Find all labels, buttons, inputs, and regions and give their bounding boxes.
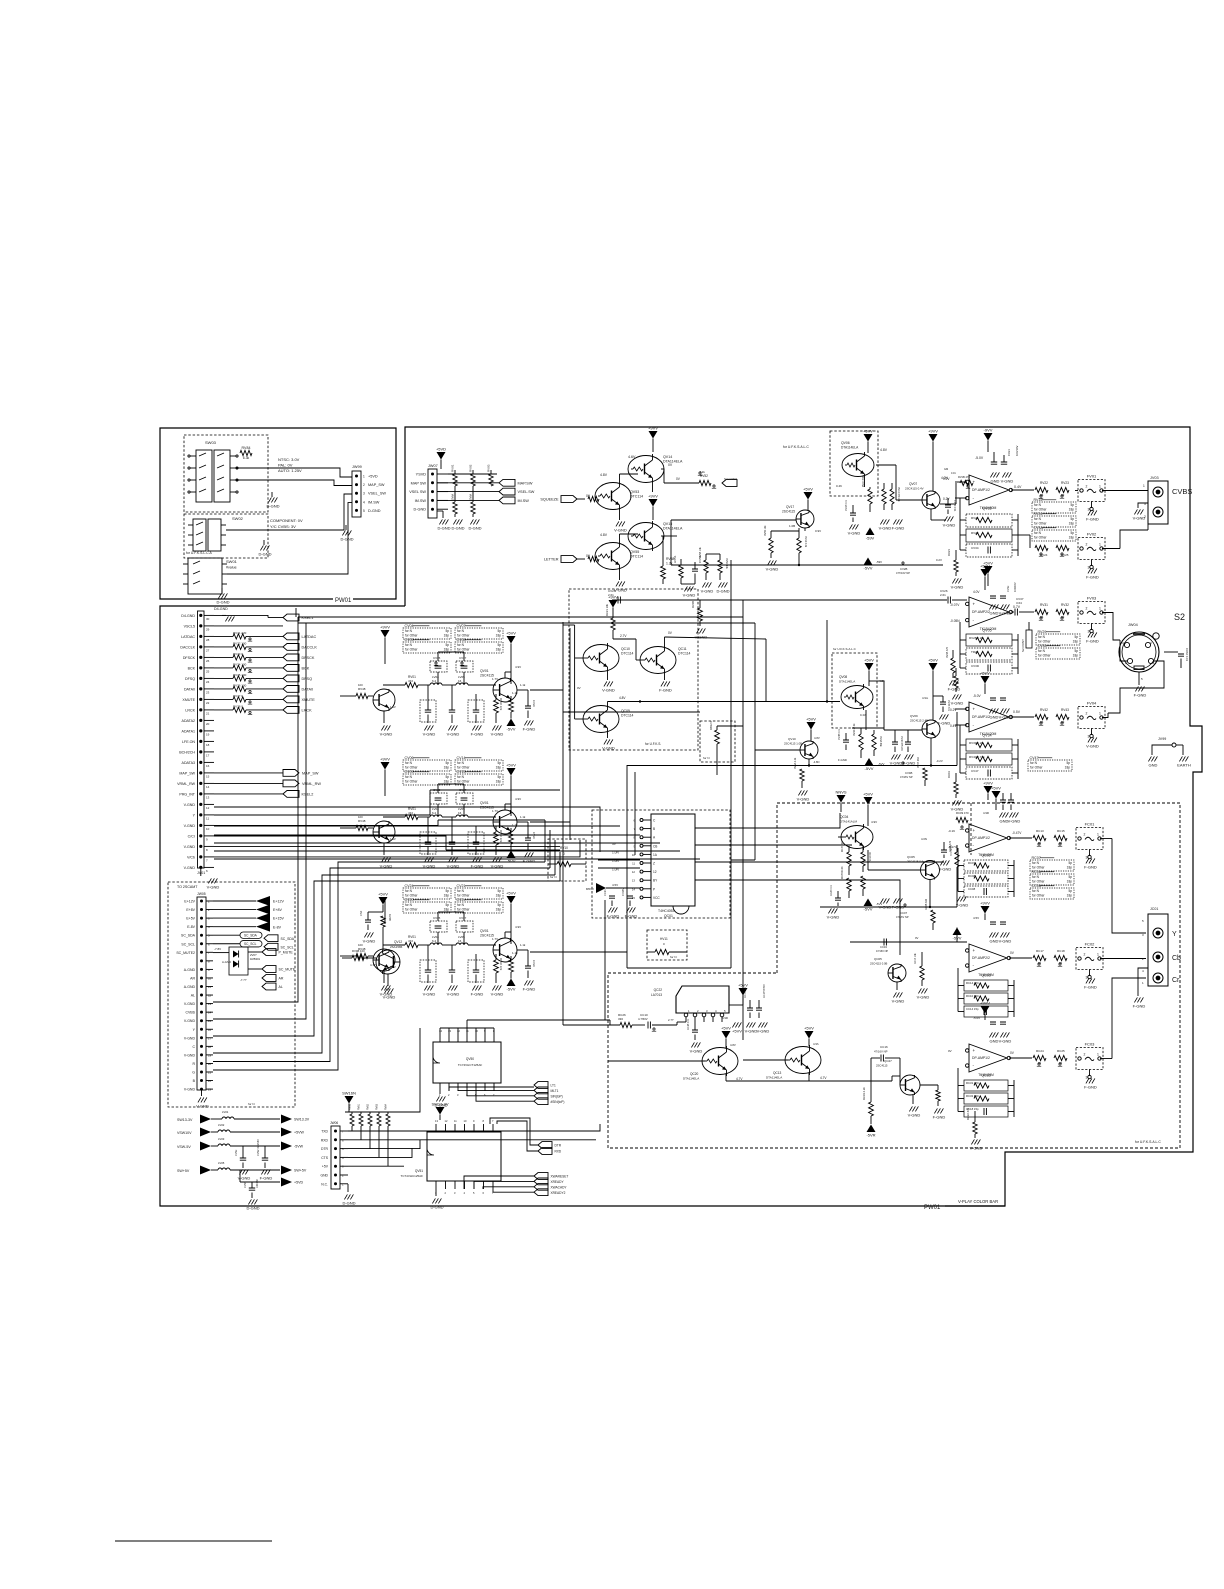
svg-text:RC19 2.2k: RC19 2.2k (862, 1087, 866, 1100)
wire qc04 to qc05 (867, 850, 869, 870)
vertical from QV17 region (826, 620, 828, 702)
svg-text:F-GND: F-GND (471, 732, 484, 737)
svg-text:RV64: RV64 (385, 1103, 388, 1110)
svg-text:CV3D: CV3D (971, 664, 980, 668)
svg-text:V-GND: V-GND (363, 939, 376, 944)
resistor RVx1 472 CV04 (405, 682, 418, 687)
svg-text:12: 12 (208, 994, 212, 998)
svg-text:D-GND: D-GND (414, 508, 427, 512)
svg-text:G: G (192, 1071, 195, 1075)
svg-text:D-GND: D-GND (451, 526, 464, 531)
svg-text:1.1k: 1.1k (512, 691, 518, 695)
ground V-GND jw05 (201, 1090, 203, 1096)
flags P_MUTE SC_MUTE AR AL (262, 949, 276, 956)
svg-text:4.8V: 4.8V (880, 448, 888, 452)
svg-text:CV2B: CV2B (900, 567, 907, 571)
grounds qv06 (880, 519, 889, 524)
svg-text:4.9R: 4.9R (722, 1016, 728, 1020)
svg-text:5p: 5p (445, 889, 449, 893)
svg-text:CV35: CV35 (1038, 644, 1047, 648)
svg-text:for N: for N (1032, 861, 1040, 865)
svg-text:V-GND: V-GND (380, 732, 393, 737)
svg-text:E-8V: E-8V (273, 925, 282, 929)
svg-text:FV04: FV04 (1087, 701, 1097, 706)
dashed box HV11 (647, 930, 687, 960)
svg-text:V-GND: V-GND (447, 992, 460, 997)
svg-text:VSEL_SW: VSEL_SW (368, 492, 386, 496)
ferrite bead FV01 (1078, 480, 1105, 502)
svg-text:F-GND: F-GND (1086, 517, 1099, 522)
transistor QV06 DTA114ELA (842, 454, 874, 477)
svg-text:5p: 5p (1074, 649, 1078, 653)
transistor QV0x CV24 (493, 938, 517, 962)
svg-text:SC_SCL: SC_SCL (181, 942, 195, 946)
dashed box QC10 cluster (569, 589, 698, 750)
power +5VV qv10 (807, 722, 816, 730)
svg-text:6.2: 6.2 (432, 811, 437, 815)
svg-text:18p: 18p (496, 766, 502, 770)
svg-text:TXD: TXD (321, 1130, 328, 1134)
svg-text:SW13-3V: SW13-3V (431, 1102, 448, 1107)
svg-text:S2.CONT: S2.CONT (1021, 639, 1025, 652)
svg-text:#SIN(toP): #SIN(toP) (551, 1100, 565, 1104)
svg-text:4.8V: 4.8V (600, 533, 608, 537)
wire into opamp2 (612, 599, 947, 601)
svg-text:RC32 820: RC32 820 (966, 1094, 979, 1098)
svg-text:MAP_SW: MAP_SW (302, 772, 319, 776)
svg-text:16: 16 (458, 679, 462, 683)
svg-text:V-GND: V-GND (1133, 516, 1146, 521)
svg-text:1.1k: 1.1k (520, 943, 526, 947)
svg-text:QV01: QV01 (480, 801, 489, 805)
svg-text:for N: for N (1034, 503, 1042, 507)
svg-text:4.9V: 4.9V (515, 797, 521, 801)
svg-text:RV21: RV21 (947, 549, 951, 556)
svg-text:CVx5: CVx5 (433, 916, 441, 920)
power arrows E+12V etc (213, 900, 256, 902)
svg-text:for Other: for Other (457, 766, 471, 770)
svg-text:18p: 18p (496, 908, 502, 912)
feedback RV39 RV40 (966, 739, 1012, 751)
svg-text:LT1: LT1 (551, 1084, 556, 1088)
ground D-GND qv50 (439, 1091, 441, 1094)
resistor RC17 10k (920, 966, 924, 980)
transistor QC10 DTC114 (583, 645, 619, 672)
svg-text:RV74 100: RV74 100 (233, 663, 247, 667)
main board outline PW01 (405, 427, 1202, 1206)
svg-text:RV84: RV84 (242, 446, 251, 450)
svg-text:V-GND: V-GND (491, 992, 504, 997)
svg-text:for N: for N (457, 643, 465, 647)
svg-text:5p: 5p (445, 775, 449, 779)
svg-text:11: 11 (206, 816, 209, 820)
svg-text:DTR: DTR (321, 1147, 329, 1151)
svg-text:23: 23 (206, 690, 210, 694)
svg-text:4.9h: 4.9h (813, 1042, 819, 1046)
svg-text:QV01: QV01 (480, 669, 489, 673)
oval flags SC_SDA SC_SCL (213, 934, 240, 936)
svg-text:PAL: 0V: PAL: 0V (278, 463, 293, 468)
svg-text:for U.F.K.S.A.L.C: for U.F.K.S.A.L.C (833, 647, 857, 651)
svg-text:for Other: for Other (457, 894, 471, 898)
svg-text:3: 3 (1086, 856, 1088, 860)
resistor RV2B shunt (698, 608, 703, 621)
svg-text:47/16V NP: 47/16V NP (896, 915, 909, 919)
resistor RV52 12k (699, 480, 711, 485)
svg-text:26: 26 (206, 659, 210, 663)
svg-text:for N: for N (1032, 875, 1040, 879)
op-amp QC03 row Cb (969, 944, 1007, 972)
svg-text:V-GND: V-GND (196, 1104, 209, 1109)
svg-text:RV42: RV42 (1040, 708, 1048, 712)
rail 907 (820, 906, 957, 908)
wire fc01 to JC01 (1112, 839, 1146, 934)
svg-text:SW+5V: SW+5V (294, 1169, 307, 1173)
svg-text:BCH/2CH: BCH/2CH (179, 750, 195, 754)
svg-text:JW07: JW07 (428, 464, 438, 468)
svg-text:+5VD: +5VD (294, 1181, 303, 1185)
svg-text:GND: GND (1149, 763, 1158, 768)
svg-text:3: 3 (1088, 735, 1090, 739)
svg-text:2: 2 (1086, 607, 1088, 611)
svg-text:RV1B 470: RV1B 470 (958, 475, 970, 479)
svg-text:13: 13 (632, 879, 636, 883)
svg-text:DTA114ELA: DTA114ELA (839, 680, 855, 684)
power -5VV on rail (865, 758, 874, 766)
svg-text:+5VV: +5VV (991, 786, 1001, 791)
svg-text:CV09: CV09 (405, 770, 414, 774)
svg-text:18: 18 (208, 1045, 212, 1049)
svg-text:QV14: QV14 (663, 455, 672, 459)
svg-text:S2.CONT: S2.CONT (724, 477, 737, 481)
caps under QC22 (692, 1030, 698, 1032)
svg-text:5p: 5p (1070, 517, 1074, 521)
ferrite bead FV03 (1078, 602, 1105, 624)
svg-text:QV01: QV01 (480, 929, 489, 933)
ground F-GND fv02 (1091, 565, 1093, 567)
svg-text:20: 20 (206, 722, 210, 726)
svg-text:M5VV: M5VV (586, 887, 594, 891)
svg-text:13: 13 (206, 795, 210, 799)
svg-text:1: 1 (363, 475, 365, 479)
svg-text:CC17 0.01: CC17 0.01 (745, 986, 747, 998)
svg-text:DTA114ELA: DTA114ELA (683, 1077, 699, 1081)
svg-text:2SC4115: 2SC4115 (876, 1064, 888, 1068)
svg-text:RV48: RV48 (358, 687, 366, 691)
option table CV47 (1028, 760, 1072, 771)
svg-text:CVBS: CVBS (185, 1011, 195, 1015)
svg-text:472: 472 (408, 811, 413, 815)
svg-text:QC01: QC01 (664, 914, 673, 918)
svg-text:V-GND: V-GND (423, 732, 436, 737)
svg-text:15: 15 (206, 774, 210, 778)
svg-text:23: 23 (208, 1088, 212, 1092)
svg-text:1.7V: 1.7V (492, 677, 498, 681)
flag SQUEEZE input (561, 496, 577, 503)
second path RV24 RV25b to FV02 (1018, 534, 1030, 536)
svg-text:0.01: 0.01 (951, 472, 956, 475)
svg-text:RC24: RC24 (1036, 1049, 1044, 1053)
svg-text:RV5A 2.2k: RV5A 2.2k (794, 757, 797, 769)
svg-text:V-GND: V-GND (757, 1029, 770, 1034)
svg-text:XMUTE: XMUTE (302, 698, 316, 702)
svg-text:CV08: CV08 (457, 638, 466, 642)
svg-text:CV9x: CV9x (234, 1149, 238, 1156)
svg-text:VSEL.SW: VSEL.SW (518, 490, 535, 494)
svg-text:21: 21 (206, 711, 210, 715)
svg-text:TO 2SCAMT: TO 2SCAMT (177, 885, 198, 889)
svg-text:RC06: RC06 (1032, 870, 1041, 874)
svg-text:RV48: RV48 (358, 819, 366, 823)
svg-text:6.2: 6.2 (432, 939, 437, 943)
svg-text:F-GND: F-GND (933, 1115, 946, 1120)
input resistor RC09 (956, 817, 968, 822)
svg-text:RC31 470: RC31 470 (966, 1081, 979, 1085)
svg-text:GND: GND (990, 715, 999, 720)
svg-text:F-GND: F-GND (1134, 693, 1147, 698)
caps CC17 CC18 (747, 1008, 753, 1010)
svg-text:E-8V: E-8V (187, 925, 195, 929)
svg-text:0V: 0V (948, 1049, 952, 1053)
svg-text:for Other: for Other (405, 908, 419, 912)
svg-text:16: 16 (206, 764, 210, 768)
svg-text:for Other: for Other (457, 908, 471, 912)
flag LETTER input (561, 556, 577, 563)
svg-text:for N: for N (457, 889, 465, 893)
svg-text:QV09: QV09 (910, 714, 918, 718)
svg-text:2: 2 (363, 483, 365, 487)
power +5VV qc20 (722, 1031, 731, 1039)
svg-text:0V: 0V (577, 686, 581, 690)
svg-text:V-GND: V-GND (614, 588, 627, 593)
resistor RV3T 330 (923, 768, 927, 780)
power -5VV qc04 net (864, 899, 873, 907)
svg-text:100/16V: 100/16V (1013, 582, 1017, 592)
svg-text:V-GND: V-GND (383, 995, 396, 1000)
svg-text:V/Cb: V/Cb (187, 855, 195, 859)
svg-text:CTS: CTS (321, 1156, 329, 1160)
svg-text:5p: 5p (497, 903, 501, 907)
transistor QV0x CV04 (493, 678, 517, 702)
wire jw06 bus (390, 1028, 420, 1112)
svg-text:+5VV: +5VV (863, 429, 873, 434)
svg-text:0.46: 0.46 (836, 484, 842, 488)
switch SW02 block (184, 514, 268, 558)
wires DIN (1120, 640, 1127, 661)
ferrite bead FC03 (1076, 1048, 1103, 1070)
transistor QC04 DTA141ALM (841, 826, 873, 849)
svg-text:-59V: -59V (876, 560, 882, 564)
svg-text:RV40 2.77k: RV40 2.77k (969, 755, 985, 759)
svg-text:CV04: CV04 (405, 624, 414, 628)
svg-text:ADATA1: ADATA1 (182, 729, 195, 733)
option tables RV29 CV35 (1036, 634, 1080, 645)
svg-text:D-GND: D-GND (437, 526, 450, 531)
power +9VV below (984, 786, 993, 794)
svg-text:RC17 10k: RC17 10k (914, 953, 917, 964)
power +9VV above QV56 (649, 499, 658, 507)
svg-text:RV5B 10k: RV5B 10k (699, 546, 702, 558)
svg-text:SC_SDA: SC_SDA (281, 937, 295, 941)
svg-text:SIN(toP): SIN(toP) (551, 1094, 563, 1098)
svg-text:16: 16 (208, 1028, 212, 1032)
svg-text:CV62 0.01: CV62 0.01 (1185, 648, 1189, 662)
svg-text:18p: 18p (496, 894, 502, 898)
svg-text:2.7?: 2.7? (668, 1018, 674, 1022)
svg-text:TK15420M: TK15420M (978, 973, 994, 977)
routing bus center (295, 608, 297, 617)
svg-text:QV06: QV06 (841, 441, 850, 445)
svg-text:CVx1: CVx1 (1007, 449, 1011, 456)
grounds CV24 (424, 985, 433, 990)
svg-text:DP-AMP1/2: DP-AMP1/2 (972, 488, 990, 492)
svg-text:MAP_SW: MAP_SW (179, 771, 195, 775)
svg-text:SW16N: SW16N (342, 1091, 356, 1096)
svg-text:KSEL2: KSEL2 (302, 793, 314, 797)
svg-text:DFSQ: DFSQ (302, 677, 313, 681)
ground F-GND fv01 (1091, 507, 1093, 509)
flag S2.CONT vertical (1026, 630, 1032, 648)
svg-text:for U.F.K.S.A.L.C: for U.F.K.S.A.L.C (783, 445, 809, 449)
svg-text:DTR: DTR (555, 1144, 562, 1148)
svg-text:SC_MUTE2: SC_MUTE2 (176, 951, 195, 955)
svg-text:RC21 10k: RC21 10k (605, 603, 609, 616)
svg-text:XREADY2: XREADY2 (551, 1191, 566, 1195)
svg-text:RB12 0: RB12 0 (709, 721, 713, 730)
resistors RV71-78 (214, 625, 283, 627)
svg-text:E+8V: E+8V (186, 908, 195, 912)
svg-text:Cr: Cr (1172, 977, 1180, 984)
svg-text:PW01: PW01 (924, 1205, 941, 1211)
svg-text:0.2V: 0.2V (943, 497, 950, 501)
svg-text:ADATA3: ADATA3 (182, 761, 195, 765)
svg-text:3: 3 (1088, 566, 1090, 570)
svg-text:-5VV: -5VV (507, 987, 516, 992)
svg-text:EARTH: EARTH (1177, 763, 1191, 768)
svg-text:5p: 5p (497, 629, 501, 633)
svg-text:2SA1586: 2SA1586 (390, 945, 403, 949)
svg-text:TK15420M: TK15420M (978, 1073, 994, 1077)
dashed box QV08 (832, 653, 877, 728)
svg-text:SV6A: SV6A (452, 493, 455, 500)
svg-text:NTSC: 3.0V: NTSC: 3.0V (278, 457, 300, 462)
svg-text:V-GND: V-GND (943, 523, 956, 528)
power SW43 flag (436, 1107, 445, 1115)
svg-text:DTA114ELA: DTA114ELA (841, 446, 859, 450)
svg-text:FV02: FV02 (1087, 532, 1097, 537)
svg-text:18p: 18p (444, 908, 450, 912)
option tables CV06 (403, 760, 451, 771)
left follower CV06 (373, 821, 395, 843)
svg-text:QC10: QC10 (621, 647, 630, 651)
jumper marks (1040, 495, 1042, 497)
svg-text:18p: 18p (1069, 508, 1075, 512)
svg-text:1: 1 (1097, 953, 1099, 957)
svg-text:RV75 100: RV75 100 (233, 673, 247, 677)
svg-text:V-GND: V-GND (879, 526, 892, 531)
svg-text:3: 3 (1086, 1076, 1088, 1080)
cap CC26 V-GND (835, 898, 841, 900)
caps CC21 (609, 896, 615, 898)
svg-text:FV01: FV01 (1087, 474, 1097, 479)
svg-text:LFE.ON: LFE.ON (182, 740, 195, 744)
svg-text:for Other: for Other (1034, 522, 1048, 526)
svg-text:CV3B 0.01: CV3B 0.01 (839, 728, 841, 740)
svg-text:CC1B 0.01: CC1B 0.01 (688, 1018, 690, 1030)
svg-text:-5VV: -5VV (864, 566, 873, 571)
svg-text:SW+5V: SW+5V (177, 1169, 190, 1173)
svg-text:for Other: for Other (457, 634, 471, 638)
wire QV54 out (661, 468, 664, 470)
svg-text:GM: GM (944, 467, 948, 471)
svg-text:330: 330 (618, 1017, 623, 1021)
feedback RV28 RV2x CV3x (966, 634, 1012, 646)
svg-text:TK15420M: TK15420M (980, 506, 997, 510)
svg-text:DP-AMP1/2: DP-AMP1/2 (972, 836, 990, 840)
svg-text:KSEL1: KSEL1 (302, 616, 314, 620)
svg-text:19: 19 (208, 1053, 212, 1057)
switch SW01 block (188, 558, 222, 594)
svg-text:20: 20 (208, 1062, 212, 1066)
svg-text:for N: for N (405, 761, 413, 765)
svg-text:D-GND: D-GND (246, 1206, 259, 1211)
svg-text:NNVS: NNVS (835, 790, 846, 795)
svg-text:QC20: QC20 (690, 1072, 699, 1076)
svg-text:IM.SW: IM.SW (415, 499, 427, 503)
svg-text:2SC4115 0.4V: 2SC4115 0.4V (905, 487, 924, 491)
svg-text:5p: 5p (445, 761, 449, 765)
svg-text:1: 1 (1097, 1053, 1099, 1057)
transistor QV56 DTA114ELA (628, 523, 664, 550)
svg-text:CVx0: CVx0 (532, 832, 536, 839)
svg-text:DTA114ELA: DTA114ELA (663, 527, 683, 531)
svg-text:F-GND: F-GND (892, 526, 905, 531)
left follower CV04 (373, 689, 395, 711)
IC QV51 TC74VHC125AF (427, 1132, 501, 1181)
svg-text:JV99: JV99 (1158, 737, 1166, 741)
svg-text:TK15420M: TK15420M (980, 627, 997, 631)
svg-text:2: 2 (1084, 953, 1086, 957)
svg-text:477/16V NP: 477/16V NP (896, 571, 910, 575)
svg-text:5p: 5p (497, 761, 501, 765)
svg-text:5p: 5p (497, 889, 501, 893)
svg-text:100/16V: 100/16V (256, 1179, 259, 1188)
svg-text:4.8V: 4.8V (619, 696, 626, 700)
svg-text:C/Cr: C/Cr (188, 834, 196, 838)
svg-text:CN0: CN0 (359, 910, 363, 916)
emitter qv10 (808, 759, 810, 766)
wires QC20 bases (562, 712, 564, 1025)
svg-text:+5VV: +5VV (980, 564, 990, 569)
svg-text:3: 3 (1088, 508, 1090, 512)
svg-text:DTC114: DTC114 (630, 495, 643, 499)
svg-text:E+15V: E+15V (273, 917, 284, 921)
IC QV50 TC74VHCT125AF (433, 1042, 501, 1083)
svg-text:for N: for N (405, 629, 413, 633)
flags XWARESET XREADY (534, 1173, 548, 1180)
emitter rail 4.7V (725, 1074, 727, 1081)
svg-text:QC27: QC27 (884, 1059, 892, 1063)
svg-text:15: 15 (208, 1019, 212, 1023)
switch SW03 block (184, 435, 268, 512)
svg-text:RC05 RC04: RC05 RC04 (842, 866, 844, 879)
svg-text:12: 12 (653, 870, 657, 874)
svg-text:22: 22 (206, 701, 210, 705)
svg-text:AL: AL (191, 994, 195, 998)
svg-text:RV32 22k: RV32 22k (499, 830, 503, 843)
transistor QC06 2SC4115 (888, 964, 906, 982)
flag KSEL1 (214, 615, 268, 617)
